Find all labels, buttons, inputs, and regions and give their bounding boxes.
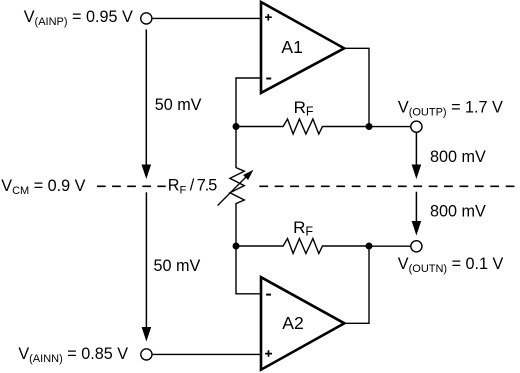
- svg-text:50 mV: 50 mV: [155, 96, 202, 114]
- resistor RF top: [236, 119, 369, 134]
- arrow 800 mV lower shaft: [415, 192, 417, 224]
- arrow 50 mV upper shaft: [145, 29, 147, 167]
- svg-text:800 mV: 800 mV: [430, 148, 486, 166]
- arrow 800 mV upper shaft: [415, 132, 417, 167]
- dashed VCM line left segment: [97, 185, 166, 187]
- svg-text:RF / 7.5: RF / 7.5: [168, 176, 217, 196]
- terminal OUTP: [411, 121, 422, 132]
- variable resistor arrow shaft: [218, 177, 247, 206]
- terminal AINP: [141, 13, 152, 24]
- dashed VCM line right segment: [259, 185, 520, 187]
- A1 pin +: [265, 14, 272, 21]
- arrow 50 mV lower shaft: [145, 192, 147, 330]
- node N2 junction: [366, 123, 373, 130]
- arrow 800 mV upper head: [412, 165, 422, 180]
- terminal OUTN: [411, 241, 422, 252]
- svg-text:A1: A1: [281, 37, 302, 57]
- svg-text:A2: A2: [282, 313, 303, 333]
- svg-text:800 mV: 800 mV: [430, 203, 486, 221]
- variable resistor RF/7.5 body: [230, 127, 244, 247]
- variable resistor arrow head: [243, 170, 253, 180]
- terminal AINN: [141, 349, 152, 360]
- node N4 junction: [366, 243, 373, 250]
- wire node N3 to A2 inverting input: [236, 246, 261, 294]
- node N3 junction: [233, 243, 240, 250]
- arrow 50 mV lower head: [142, 327, 152, 342]
- A2 pin -: [266, 294, 271, 296]
- A2 pin +: [265, 350, 272, 356]
- A1 pin -: [266, 78, 271, 80]
- wire node N2 to OUTP terminal: [369, 126, 411, 128]
- node N1 junction: [233, 123, 240, 130]
- wire A1 output to node N2: [344, 48, 369, 124]
- arrow 50 mV upper head: [142, 165, 152, 180]
- wire AINP to A1 noninverting input: [152, 17, 261, 19]
- resistor RF bottom: [236, 239, 369, 254]
- wire A2 output to node N4: [344, 246, 369, 323]
- wire node N4 to OUTN terminal: [369, 245, 411, 247]
- wire AINN to A2 noninverting input: [152, 353, 261, 355]
- svg-text:50 mV: 50 mV: [154, 257, 201, 275]
- op-amp A1: [261, 2, 344, 93]
- op-amp A2: [261, 277, 344, 370]
- arrow 800 mV lower head: [412, 221, 422, 236]
- wire A1 inverting input to node N1: [236, 78, 261, 124]
